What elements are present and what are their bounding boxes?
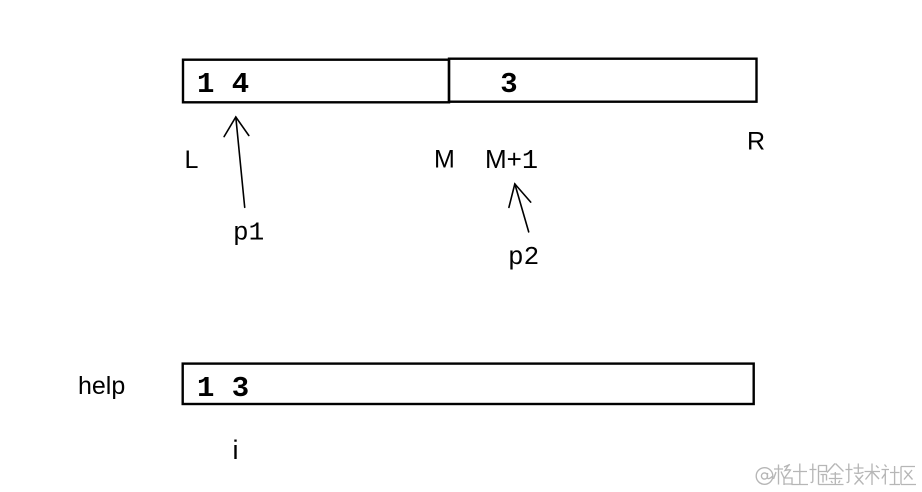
watermark @稀土掘金技术社区 [756,464,916,486]
svg-text:help: help [78,372,125,400]
top array box left cell [183,60,449,103]
svg-text:L: L [185,146,199,174]
svg-text:M: M [434,146,455,174]
arrow p1 [224,117,249,207]
svg-text:p2: p2 [508,242,539,272]
svg-text:1 4: 1 4 [197,68,249,101]
svg-text:M+1: M+1 [485,144,538,177]
svg-text:R: R [747,128,765,156]
svg-text:p1: p1 [233,218,264,248]
top array box right cell [449,59,757,102]
arrow p2 [509,184,531,232]
svg-text:i: i [233,435,239,465]
svg-text:1 3: 1 3 [197,372,249,405]
help array box [183,364,754,404]
svg-text:3: 3 [500,68,517,101]
